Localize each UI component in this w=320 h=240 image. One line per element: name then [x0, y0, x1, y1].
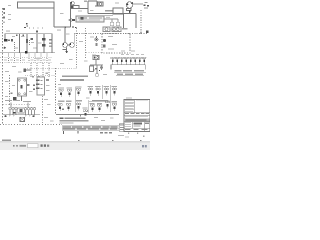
- title block: [124, 100, 150, 132]
- drain valve DV1: [13, 97, 16, 100]
- solenoid group SG3: [76, 88, 80, 96]
- control valve assembly center: [90, 56, 104, 77]
- node tick on dashed pilot: [140, 32, 141, 34]
- wire motor drain: [21, 96, 23, 101]
- wire solenoid bank rail: [111, 65, 146, 70]
- dashed enclosure control block: [102, 34, 130, 54]
- valve dark marks left of cooler: [72, 19, 75, 21]
- loader valve bank circles: [9, 107, 36, 114]
- dashed drain verticals: [76, 28, 78, 68]
- solenoid group SG12: [97, 104, 101, 112]
- pressure valve PRV at x96: [95, 36, 98, 46]
- dashed drain bottom: [86, 52, 102, 54]
- solenoid group SG9: [66, 103, 70, 111]
- toolbar icon buttons: [41, 144, 50, 146]
- toolbar pager controls: [13, 145, 26, 147]
- node marks above rail: [16, 30, 38, 36]
- parts strip band: [62, 126, 119, 131]
- title block notes text: [125, 100, 148, 111]
- pilot pump column P4: [64, 1, 87, 28]
- oil cooler box C1 speckled: [76, 16, 104, 22]
- solenoid group SG2: [67, 89, 71, 97]
- toolbar zoom control right: [142, 145, 147, 147]
- node blob right margin: [146, 31, 149, 34]
- tick marks below strip: [64, 131, 79, 134]
- legend table dashed grid: [0, 54, 77, 79]
- solenoid group SG6: [104, 88, 108, 96]
- swing motor block M1: [10, 78, 35, 96]
- label TR-AB: [105, 10, 113, 12]
- pump P1: [62, 43, 67, 48]
- separator line B: [102, 85, 104, 99]
- revision marks: [100, 132, 112, 133]
- rule under front caption: [89, 101, 111, 103]
- separator line C: [109, 85, 111, 112]
- valve V4 marks: [49, 39, 52, 47]
- wire grid bottom rule: [56, 115, 119, 117]
- pump P2: [67, 43, 74, 48]
- dashed border inner left: [9, 75, 11, 105]
- valve V3: [30, 38, 33, 40]
- pump P3 top right: [126, 2, 133, 14]
- solenoid group SG14: [112, 103, 116, 111]
- solenoid bank row of 8: [111, 57, 146, 65]
- port fittings on left border: [3, 8, 5, 23]
- viewer toolbar: [0, 142, 150, 150]
- dashed pilot long horizontal: [75, 33, 149, 35]
- loader rail end marks: [5, 112, 35, 117]
- dotted page bottom border: [0, 124, 62, 126]
- valve V2: [26, 39, 28, 43]
- label above title block: [126, 97, 132, 98]
- wire second return line: [88, 15, 113, 17]
- tank box T1: [88, 1, 103, 14]
- manifold lower rail: [0, 52, 55, 54]
- label header line 1: [62, 75, 88, 77]
- solenoid group SG1: [59, 89, 63, 97]
- label solenoid bank caption lines: [115, 70, 145, 75]
- solenoid group SG8: [58, 103, 62, 111]
- separator line D: [88, 100, 90, 113]
- check valve CV1 black: [25, 51, 28, 54]
- dashed boundary right: [140, 10, 142, 33]
- label small captions row1: [59, 86, 118, 89]
- model cell text: [125, 122, 149, 130]
- note text block: [60, 117, 89, 123]
- page number bottom-left: [2, 140, 11, 142]
- wire right drop: [54, 8, 71, 27]
- header row segments: [125, 113, 149, 117]
- hatch ticks on rail: [5, 115, 35, 117]
- label specks layer: [5, 3, 145, 138]
- toolbar input box: [28, 144, 39, 148]
- relief valve RV1: [4, 39, 13, 41]
- dashed page border left: [2, 8, 4, 124]
- legend cell marks: [4, 60, 51, 78]
- solenoid group SG7: [112, 88, 116, 96]
- wire loader rail: [3, 114, 40, 116]
- solenoid group SG4: [88, 88, 92, 96]
- ruler ticks above toolbar: [78, 140, 141, 141]
- solenoid pair SV1: [42, 38, 45, 40]
- wire pump suction: [64, 27, 66, 43]
- label header line 2: [60, 79, 84, 81]
- dashed divider right of bank: [42, 96, 44, 125]
- dashed line under motor: [3, 104, 30, 106]
- wire to tank box: [79, 8, 88, 10]
- wire stub under title block: [118, 134, 124, 136]
- wire top loop rectangle: [18, 2, 55, 8]
- wire pump to corner valves: [133, 3, 143, 5]
- wire drop lines from return: [124, 14, 137, 29]
- filter box F1: [113, 8, 123, 14]
- solenoid group SG13: [105, 101, 109, 109]
- cylinder block B1: [36, 77, 49, 95]
- label text above loader bank: [5, 100, 31, 102]
- manifold upper rail: [5, 33, 52, 35]
- solenoid pair SV2: [42, 44, 45, 46]
- dashed pilot to pump2: [74, 34, 76, 43]
- shuttle valve X1: [20, 117, 25, 121]
- wire main return line: [88, 13, 136, 15]
- accumulator boxes A1 A2: [103, 27, 128, 32]
- wire stems above bank: [11, 103, 28, 108]
- specks small row upper-left: [24, 27, 43, 29]
- label front axle caption: [92, 100, 108, 101]
- node dots left-center: [26, 23, 28, 26]
- dashed section divider: [55, 68, 57, 115]
- solenoid SV0 inside enclosure: [103, 39, 106, 47]
- title band dark: [124, 118, 150, 121]
- check valve pair top-right corner: [144, 2, 149, 8]
- valve dark marks under pump column: [72, 19, 76, 28]
- separator line A: [75, 87, 77, 113]
- solenoid group SG11: [90, 104, 94, 112]
- label caption underline: [114, 72, 146, 76]
- pilot valve PV1: [24, 68, 32, 72]
- solenoid group SG10: [76, 103, 80, 111]
- dashed pilot line b: [29, 40, 31, 46]
- label captions row2: [58, 100, 117, 104]
- stamp box: [119, 124, 124, 131]
- solenoid group SG15: [83, 108, 88, 116]
- solenoid group SG5: [96, 88, 100, 96]
- suction strainer arrow: [63, 47, 69, 53]
- gauge G1 G2 hanging: [104, 19, 120, 26]
- node dot N1: [4, 47, 6, 49]
- manifold risers: [5, 34, 52, 53]
- dashed pilot line a: [14, 42, 16, 52]
- node mark left of grid: [62, 109, 64, 110]
